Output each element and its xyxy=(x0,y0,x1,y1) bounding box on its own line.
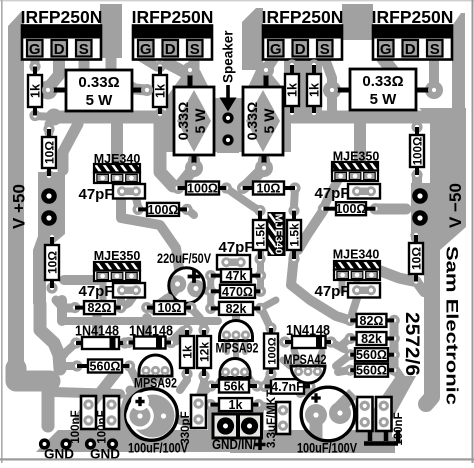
node V+50 xyxy=(10,184,29,229)
wire segment W2 xyxy=(16,368,50,381)
wire segment W48 xyxy=(324,180,338,207)
wire segment W73 xyxy=(338,370,350,372)
capacitor 47pF (center) xyxy=(217,239,254,270)
svg-text:S: S xyxy=(190,41,200,58)
wire segment W5 xyxy=(230,437,395,453)
wire segment W1 xyxy=(8,12,24,388)
wire segment W23 xyxy=(49,56,59,87)
resistor 100R (center vertical) xyxy=(264,322,278,379)
svg-text:1k: 1k xyxy=(153,84,167,98)
wire segment W20 xyxy=(242,8,263,70)
capacitor 100nF (right b) xyxy=(376,397,392,431)
svg-text:IRFP250N: IRFP250N xyxy=(372,7,454,27)
wire segment W51 xyxy=(136,198,138,206)
capacitor 220uF/50V xyxy=(154,250,212,309)
svg-text:V −50: V −50 xyxy=(446,183,465,228)
transistor Q1 IRFP250N xyxy=(21,7,103,60)
resistor 0.33R 5W (vertical right) xyxy=(243,62,283,174)
svg-text:1k: 1k xyxy=(180,345,194,359)
resistor 1k (mid-right a) xyxy=(285,59,299,118)
pad GND 1 xyxy=(39,438,50,449)
wire segment W122 xyxy=(339,277,346,290)
wire segment W10 xyxy=(452,13,465,112)
svg-text:47pF: 47pF xyxy=(78,283,113,300)
wire segment W80 xyxy=(218,372,227,384)
wire segment W78 xyxy=(224,334,230,352)
resistor 10R (mid-left) xyxy=(141,301,196,315)
wire segment W120 xyxy=(130,281,137,296)
capacitor 4.7nF xyxy=(259,379,316,394)
svg-text:5 W: 5 W xyxy=(261,108,277,134)
transistor MJE350 (top-right) xyxy=(332,150,379,182)
wire segment W54 xyxy=(294,188,295,206)
svg-text:G: G xyxy=(380,41,392,58)
wire segment W66 xyxy=(257,252,264,291)
wire segment W72 xyxy=(336,355,350,366)
wire segment W3 xyxy=(42,392,55,426)
wire segment W57 xyxy=(122,293,136,307)
wire segment W90 xyxy=(125,342,128,343)
transistor Q3 IRFP250N xyxy=(262,7,344,60)
resistor 1k (mid-right b) xyxy=(307,59,321,118)
svg-text:S: S xyxy=(79,41,89,58)
transistor MJE340 (top-left) xyxy=(94,152,141,183)
wire segment W43 xyxy=(63,124,78,170)
svg-text:100Ω: 100Ω xyxy=(148,203,179,217)
svg-text:0.33Ω: 0.33Ω xyxy=(175,102,191,140)
wire segment W7 xyxy=(346,430,392,452)
svg-text:47pF: 47pF xyxy=(78,186,113,203)
svg-text:2572/6: 2572/6 xyxy=(401,312,422,376)
wire segment W77 xyxy=(232,310,240,318)
wire segment W34 xyxy=(327,92,337,113)
svg-text:100Ω: 100Ω xyxy=(266,337,278,364)
wire segment W84 xyxy=(259,405,273,408)
resistor 56k xyxy=(205,380,262,394)
wire segment W24 xyxy=(39,81,58,100)
pad V-50 b xyxy=(412,210,428,226)
wire segment W74 xyxy=(331,342,344,349)
terminal GND/IN/+ xyxy=(212,414,266,452)
svg-text:V +50: V +50 xyxy=(10,184,29,229)
svg-text:100nF: 100nF xyxy=(393,412,405,445)
wire segment W119 xyxy=(100,281,107,300)
capacitor 100nF (left b) xyxy=(97,396,120,444)
wire segment W29 xyxy=(189,56,200,100)
wire segment W76 xyxy=(267,373,271,382)
wire segment W71 xyxy=(394,320,401,378)
transistor MJE340 (vertical) xyxy=(268,212,286,256)
svg-text:82k: 82k xyxy=(226,302,247,316)
wire segment W117 xyxy=(416,236,423,249)
svg-text:560Ω: 560Ω xyxy=(356,364,387,378)
resistor 82R (right) xyxy=(345,314,400,328)
svg-text:0.33Ω: 0.33Ω xyxy=(244,102,260,140)
pad GND 2 xyxy=(60,438,71,449)
wire segment W106 xyxy=(233,334,239,356)
wire segment W50 xyxy=(121,198,180,276)
resistor 10R (left lower) xyxy=(45,231,59,293)
capacitor 100nF (right a) xyxy=(357,397,373,431)
svg-text:MJE340: MJE340 xyxy=(333,248,380,262)
wire segment W9 xyxy=(411,108,466,302)
wire segment W121 xyxy=(354,281,361,295)
wire segment W53 xyxy=(226,188,260,211)
wire segment W87 xyxy=(200,378,208,388)
svg-text:D: D xyxy=(54,41,65,58)
resistor 1k (mid) xyxy=(180,324,194,379)
capacitor 47pF (top-left) xyxy=(78,184,145,203)
wire segment W111 xyxy=(342,338,350,345)
node GND (left) xyxy=(44,447,74,462)
wire segment W6 xyxy=(344,376,416,452)
diode 1N4148 #2 xyxy=(123,324,177,349)
wire segment W47 xyxy=(354,124,366,160)
wire segment W79 xyxy=(242,334,248,352)
wire segment W107 xyxy=(233,378,240,384)
node 100nF bracket xyxy=(364,412,405,445)
wire segment W62 xyxy=(57,300,67,321)
pad GND 4 xyxy=(107,438,118,449)
capacitor 100uF/100V (right) xyxy=(297,387,358,455)
diode 1N4148 #1 xyxy=(70,324,130,350)
wire segment W31 xyxy=(266,56,275,70)
svg-text:56k: 56k xyxy=(224,380,245,394)
svg-text:MJE350: MJE350 xyxy=(94,249,141,263)
svg-text:100Ω: 100Ω xyxy=(187,182,218,196)
transistor MPSA92 (upper) xyxy=(216,321,259,356)
wire segment W19 xyxy=(100,4,122,58)
pad V-50 a xyxy=(412,188,428,204)
wire segment W112 xyxy=(130,390,140,396)
svg-text:10Ω: 10Ω xyxy=(257,182,281,196)
wire segment W36 xyxy=(425,81,443,99)
wire segment W67 xyxy=(291,255,349,320)
resistor 12k xyxy=(197,324,211,381)
svg-text:1k: 1k xyxy=(285,83,299,97)
svg-text:G: G xyxy=(140,41,152,58)
wire segment W108 xyxy=(245,372,252,382)
wire segment W13 xyxy=(35,116,54,117)
wire segment W113 xyxy=(156,369,164,380)
svg-text:IRFP250N: IRFP250N xyxy=(262,7,344,27)
resistor 100R #1 xyxy=(172,182,232,196)
svg-text:S: S xyxy=(430,41,440,58)
wire segment W52 xyxy=(187,209,194,215)
svg-text:IRFP250N: IRFP250N xyxy=(132,7,214,27)
wire segment W55 xyxy=(64,275,100,285)
svg-text:IRFP250N: IRFP250N xyxy=(21,7,103,27)
wire segment W110 xyxy=(283,360,290,366)
resistor 10R (center) xyxy=(237,182,301,196)
node V-50 xyxy=(446,183,465,228)
wire segment W15 xyxy=(166,98,291,152)
resistor 82k (center) xyxy=(205,302,266,316)
svg-text:560Ω: 560Ω xyxy=(90,360,121,374)
resistor 470R xyxy=(205,285,266,299)
svg-text:Speaker: Speaker xyxy=(221,30,236,83)
svg-text:100Ω: 100Ω xyxy=(412,137,424,165)
wire segment W42 xyxy=(40,304,60,369)
wire segment W97 xyxy=(340,414,356,420)
capacitor 47pF (top-right) xyxy=(314,184,380,202)
wire segment W39 xyxy=(243,160,264,188)
resistor 560R (bottom-left) xyxy=(71,360,135,374)
transistor MPSA42 xyxy=(284,352,327,383)
wire segment W96 xyxy=(163,414,195,425)
svg-text:100Ω: 100Ω xyxy=(336,202,367,216)
wire segment W41 xyxy=(33,172,65,304)
svg-text:5 W: 5 W xyxy=(370,91,398,108)
resistor 100R #3 xyxy=(318,202,381,216)
wire segment W94 xyxy=(130,366,141,388)
wire segment W82 xyxy=(317,352,322,364)
wire segment W12 xyxy=(46,109,63,126)
wire segment W104 xyxy=(298,211,323,250)
svg-text:82Ω: 82Ω xyxy=(360,314,384,328)
resistor 1.5k (left) xyxy=(253,205,267,265)
resistor 0.33R 5W (left) xyxy=(42,70,153,111)
wire segment W28 xyxy=(169,56,186,73)
wire segment W65 xyxy=(198,289,208,291)
wire segment W33 xyxy=(429,56,439,86)
wire segment W37 xyxy=(178,160,194,188)
wire segment W102 xyxy=(196,321,204,330)
wire segment W109 xyxy=(300,383,308,394)
wire segment W86 xyxy=(180,374,187,390)
svg-text:220uF/50V: 220uF/50V xyxy=(157,250,212,266)
capacitor 330pF xyxy=(180,395,206,445)
wire segment W44 xyxy=(45,124,54,133)
svg-text:10Ω: 10Ω xyxy=(409,247,423,270)
capacitor 47pF (mid-left) xyxy=(78,283,145,300)
svg-text:MPSA92: MPSA92 xyxy=(216,341,259,356)
wire segment W49 xyxy=(375,204,406,215)
transistor Q2 IRFP250N xyxy=(132,7,214,60)
resistor 100R (right upper) xyxy=(410,121,424,180)
wire segment W92 xyxy=(80,370,118,418)
svg-text:47pF: 47pF xyxy=(314,283,349,300)
svg-text:100uF/100V: 100uF/100V xyxy=(128,440,189,456)
capacitor 3.3uF/MKT xyxy=(266,390,290,448)
svg-text:470Ω: 470Ω xyxy=(222,285,253,299)
wire segment W95 xyxy=(54,392,120,394)
wire segment W118 xyxy=(416,281,424,292)
svg-text:10Ω: 10Ω xyxy=(158,301,182,315)
wire segment W30 xyxy=(284,56,322,114)
wire segment W60 xyxy=(92,318,102,338)
wire segment W89 xyxy=(60,343,76,360)
svg-text:0.33Ω: 0.33Ω xyxy=(78,74,119,91)
resistor 100R #2 xyxy=(133,203,193,217)
wire segment W38 xyxy=(185,159,203,177)
wire segment W59 xyxy=(62,317,218,325)
resistor 82k (right) xyxy=(345,332,400,346)
wire segment W8 xyxy=(426,300,432,404)
wire segment W115 xyxy=(412,174,422,187)
transistor Q4 IRFP250N xyxy=(372,7,454,60)
svg-text:47k: 47k xyxy=(226,269,247,283)
wire segment W25 xyxy=(79,56,90,113)
svg-text:560Ω: 560Ω xyxy=(356,348,387,362)
resistor 47k xyxy=(205,269,266,283)
resistor 1.5k (right) xyxy=(287,205,301,265)
wire segment W18 xyxy=(217,103,239,153)
wire segment W58 xyxy=(56,300,75,308)
svg-text:47pF: 47pF xyxy=(218,239,253,256)
wire segment W56 xyxy=(117,290,125,303)
resistor 1k (left) xyxy=(28,61,42,121)
wire segment W11 xyxy=(55,111,215,124)
svg-text:D: D xyxy=(165,41,176,58)
svg-text:10Ω: 10Ω xyxy=(42,141,56,164)
wire segment W32 xyxy=(381,56,404,112)
wire segment W40 xyxy=(255,159,273,177)
wire segment W26 xyxy=(31,58,40,64)
wire segment W17 xyxy=(243,70,291,98)
wire segment W35 xyxy=(323,81,341,99)
wire segment W4 xyxy=(36,430,310,452)
transistor MPSA92 (lower-mid) xyxy=(220,359,250,378)
wire segment W21 xyxy=(342,4,373,40)
capacitor 100nF (left a) xyxy=(70,396,96,444)
wire segment W100 xyxy=(246,408,253,412)
wire segment W14 xyxy=(262,111,430,124)
svg-text:MJE340: MJE340 xyxy=(272,214,284,255)
svg-text:12k: 12k xyxy=(197,342,211,362)
resistor 10R (left upper) xyxy=(42,123,56,181)
resistor 0.33R 5W (vertical left) xyxy=(174,62,214,174)
svg-text:1.5k: 1.5k xyxy=(287,223,301,247)
svg-text:5 W: 5 W xyxy=(86,92,114,109)
wire segment W99 xyxy=(222,408,229,412)
wire segment W75 xyxy=(263,312,271,329)
svg-text:47pF: 47pF xyxy=(314,185,349,202)
wire segment W103 xyxy=(324,56,332,88)
transistor MJE350 (mid-left) xyxy=(94,249,141,281)
wire segment W68 xyxy=(261,300,277,308)
svg-text:1k: 1k xyxy=(28,84,42,98)
resistor 1k (mid-left) xyxy=(153,61,167,120)
wire segment W85 xyxy=(198,384,203,400)
wire segment W64 xyxy=(207,276,214,309)
svg-text:10Ω: 10Ω xyxy=(45,251,59,274)
wire segment W93 xyxy=(62,362,77,370)
svg-text:S: S xyxy=(320,41,330,58)
pad V+50 b xyxy=(41,210,57,226)
capacitor 47pF (mid-right) xyxy=(314,283,380,300)
node Sam Electronic xyxy=(443,246,462,405)
wire segment W46 xyxy=(111,124,123,162)
svg-text:D: D xyxy=(405,41,416,58)
svg-text:1k: 1k xyxy=(229,398,243,412)
resistor 560R (right a) xyxy=(345,348,400,362)
svg-text:Sam Electronic: Sam Electronic xyxy=(443,246,462,405)
transistor MJE340 (mid-right) xyxy=(333,248,380,281)
svg-text:82k: 82k xyxy=(361,332,382,346)
resistor 0.33R 5W (right) xyxy=(326,69,440,110)
wire segment W70 xyxy=(352,295,358,314)
wire segment W88 xyxy=(171,330,183,342)
diode 1N4148 #3 xyxy=(279,323,336,348)
pad GND 3 xyxy=(85,438,96,449)
wire segment W98 xyxy=(310,386,316,402)
wire segment W22 xyxy=(111,55,146,90)
capacitor 100uF/100V (left) xyxy=(126,389,189,456)
pad V+50 a xyxy=(41,188,57,204)
wire segment W45 xyxy=(160,124,173,186)
svg-text:G: G xyxy=(29,41,41,58)
wire segment W16 xyxy=(166,70,214,98)
wire segment W91 xyxy=(122,377,152,428)
node GND (right) xyxy=(90,447,120,462)
wire segment W63 xyxy=(191,308,204,326)
svg-text:0.33Ω: 0.33Ω xyxy=(362,73,403,90)
resistor 82R (left) xyxy=(69,301,126,315)
svg-text:5 W: 5 W xyxy=(192,108,208,134)
wire segment W27 xyxy=(139,56,157,67)
wire segment W69 xyxy=(378,270,413,281)
svg-text:G: G xyxy=(270,41,282,58)
svg-text:D: D xyxy=(295,41,306,58)
resistor 10R (right) xyxy=(409,229,423,287)
svg-text:82Ω: 82Ω xyxy=(88,301,112,315)
resistor 560R (right b) xyxy=(345,364,400,378)
wire segment W83 xyxy=(205,386,211,392)
node Speaker output xyxy=(220,30,237,146)
resistor 1k (bottom) xyxy=(205,398,264,412)
transistor MPSA92 (left) xyxy=(134,355,177,391)
wire segment W61 xyxy=(142,318,152,337)
svg-text:1k: 1k xyxy=(307,83,321,97)
wire segment W101 xyxy=(176,330,187,342)
wire segment W114 xyxy=(44,178,54,192)
svg-text:GND/IN/: GND/IN/ xyxy=(212,436,256,452)
svg-text:100uF/100V: 100uF/100V xyxy=(297,440,358,456)
svg-text:1.5k: 1.5k xyxy=(253,223,267,247)
node 2572/6 xyxy=(401,312,422,376)
wire segment W116 xyxy=(413,119,422,128)
wire segment W81 xyxy=(294,350,299,364)
wire segment W105 xyxy=(208,406,264,440)
